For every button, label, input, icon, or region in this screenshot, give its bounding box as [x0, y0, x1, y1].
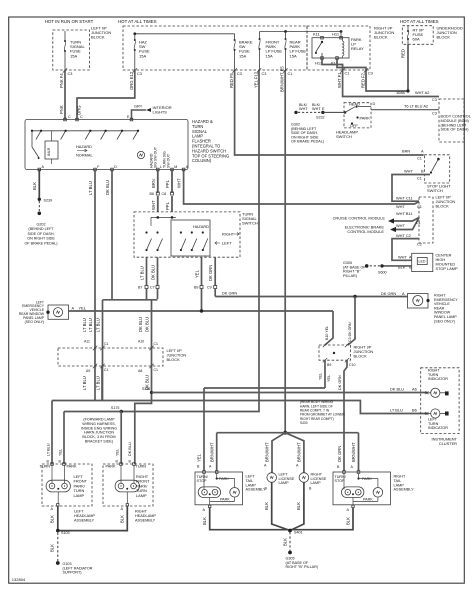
svg-text:DK GRN: DK GRN — [338, 375, 342, 390]
svg-text:YEL: YEL — [59, 449, 63, 456]
svg-text:BLK: BLK — [120, 515, 125, 523]
svg-text:C3: C3 — [368, 72, 373, 76]
svg-text:CRUISE CONTROL MODULE: CRUISE CONTROL MODULE — [333, 216, 386, 221]
svg-text:PARK: PARK — [220, 498, 230, 502]
svg-text:RIGHT: RIGHT — [394, 475, 406, 479]
svg-text:PARK: PARK — [67, 465, 78, 469]
svg-text:WHT: WHT — [299, 107, 308, 111]
svg-text:BRN: BRN — [402, 149, 410, 154]
svg-text:BLOCK: BLOCK — [437, 35, 451, 40]
svg-text:LT BLU: LT BLU — [82, 376, 87, 390]
svg-text:S600: S600 — [378, 271, 387, 275]
svg-text:NORMAL: NORMAL — [76, 153, 93, 158]
svg-text:S401: S401 — [294, 531, 303, 535]
svg-text:RED F2: RED F2 — [361, 72, 366, 88]
svg-text:C1: C1 — [154, 368, 159, 372]
svg-text:WHT: WHT — [404, 169, 413, 174]
svg-text:C: C — [80, 115, 83, 119]
svg-text:B7: B7 — [138, 285, 142, 289]
svg-text:A11: A11 — [84, 340, 90, 344]
svg-text:BLK: BLK — [32, 182, 37, 190]
svg-text:LAMP: LAMP — [394, 483, 405, 487]
svg-text:LAMP: LAMP — [74, 493, 85, 498]
svg-text:WHT: WHT — [398, 255, 407, 260]
svg-text:ASSEMBLY: ASSEMBLY — [394, 488, 415, 492]
svg-text:RELAY: RELAY — [351, 46, 364, 51]
svg-text:COLUMN): COLUMN) — [192, 158, 212, 163]
svg-text:D: D — [373, 102, 376, 106]
svg-text:D: D — [114, 165, 117, 169]
svg-text:HOT AT ALL TIMES: HOT AT ALL TIMES — [400, 19, 439, 24]
svg-text:BLOCK, 3 IN FROM: BLOCK, 3 IN FROM — [82, 435, 115, 439]
svg-text:ORG: ORG — [77, 105, 82, 115]
svg-text:A10: A10 — [138, 340, 144, 344]
svg-text:PARK: PARK — [363, 498, 373, 502]
svg-text:S239: S239 — [44, 198, 53, 202]
svg-text:WHT: WHT — [312, 107, 321, 111]
svg-text:ASSEMBLY: ASSEMBLY — [246, 488, 267, 492]
svg-text:BLOCK: BLOCK — [91, 35, 105, 40]
svg-text:LAMP: LAMP — [311, 481, 322, 485]
svg-text:SIDE OF DASH): SIDE OF DASH) — [441, 128, 470, 132]
svg-text:B10 YEL: B10 YEL — [325, 326, 329, 340]
svg-text:HAZARD: HAZARD — [76, 144, 92, 149]
svg-text:DK BLU: DK BLU — [390, 387, 404, 392]
svg-text:TAIL: TAIL — [394, 479, 402, 483]
svg-text:B: B — [421, 169, 424, 174]
svg-text:WHT: WHT — [396, 204, 405, 209]
svg-text:LEFT: LEFT — [246, 475, 256, 479]
svg-text:INDICATOR: INDICATOR — [428, 377, 448, 381]
svg-text:SIG SW OUT: SIG SW OUT — [154, 146, 158, 168]
svg-text:15A: 15A — [266, 53, 273, 58]
svg-text:PPL: PPL — [165, 201, 170, 210]
svg-text:S103: S103 — [61, 531, 70, 535]
svg-text:(SEO ONLY): (SEO ONLY) — [25, 320, 44, 324]
svg-text:60A: 60A — [413, 37, 420, 42]
svg-text:M: M — [174, 165, 177, 169]
svg-text:OF BRAKE PEDAL): OF BRAKE PEDAL) — [291, 140, 324, 144]
svg-text:B9: B9 — [194, 285, 198, 289]
svg-text:C3 DK GRN: C3 DK GRN — [348, 322, 352, 342]
svg-text:WHT: WHT — [151, 200, 156, 210]
svg-text:A8: A8 — [138, 369, 142, 373]
svg-text:C1: C1 — [154, 342, 159, 346]
svg-text:RED F5: RED F5 — [229, 72, 234, 88]
svg-text:BLOCK: BLOCK — [436, 204, 450, 209]
svg-text:BRACKET SIDE): BRACKET SIDE) — [85, 440, 113, 444]
svg-text:LED: LED — [419, 260, 426, 264]
svg-text:LIGHTS: LIGHTS — [153, 110, 168, 115]
svg-text:STOP: STOP — [335, 479, 346, 483]
svg-text:HEAD: HEAD — [349, 101, 360, 106]
svg-text:132804: 132804 — [12, 577, 26, 582]
svg-text:(BEHIND LEFT: (BEHIND LEFT — [28, 227, 54, 231]
svg-text:HOT IN RUN OR START: HOT IN RUN OR START — [45, 19, 94, 24]
svg-text:C10: C10 — [349, 363, 355, 367]
svg-text:YEL: YEL — [116, 449, 120, 456]
svg-text:A6: A6 — [412, 387, 417, 392]
svg-text:ON RIGHT SIDE: ON RIGHT SIDE — [27, 237, 55, 241]
svg-text:C2: C2 — [417, 243, 422, 247]
svg-text:PPL: PPL — [165, 179, 170, 188]
svg-text:B6: B6 — [412, 408, 417, 413]
svg-text:LT BLU: LT BLU — [88, 318, 93, 332]
svg-text:INDICATOR: INDICATOR — [428, 426, 448, 430]
svg-text:C1: C1 — [417, 205, 422, 209]
svg-text:LAMP: LAMP — [246, 483, 257, 487]
svg-text:S400: S400 — [300, 421, 308, 425]
svg-text:BRN/WHT: BRN/WHT — [265, 442, 270, 462]
svg-text:TURN: TURN — [40, 465, 51, 469]
svg-text:15A: 15A — [239, 53, 246, 58]
svg-text:DK BLU: DK BLU — [138, 317, 143, 332]
svg-text:(BEHIND LEFT: (BEHIND LEFT — [441, 123, 468, 127]
svg-text:PILLAR): PILLAR) — [343, 274, 357, 278]
svg-text:ASSEMBLY: ASSEMBLY — [135, 518, 156, 522]
svg-text:HEADLAMP: HEADLAMP — [74, 514, 95, 518]
svg-text:C1: C1 — [104, 368, 109, 372]
svg-text:C3: C3 — [68, 72, 73, 76]
svg-text:BLK: BLK — [264, 502, 269, 510]
svg-text:BRN: BRN — [151, 179, 156, 188]
svg-text:RIGHT: RIGHT — [222, 232, 235, 237]
svg-text:L: L — [160, 165, 162, 169]
svg-text:G202: G202 — [36, 223, 45, 227]
svg-text:BRN/WHT: BRN/WHT — [351, 442, 356, 462]
svg-text:(FORWARD LAMP: (FORWARD LAMP — [83, 418, 115, 422]
svg-text:INSIDE ENG WIRING: INSIDE ENG WIRING — [81, 426, 117, 430]
svg-text:RIGHT "B" PILLAR): RIGHT "B" PILLAR) — [286, 565, 318, 569]
svg-text:C7: C7 — [150, 285, 155, 289]
svg-text:PARK: PARK — [362, 477, 372, 481]
svg-text:BRN/WHT E5: BRN/WHT E5 — [280, 66, 285, 92]
svg-text:A: A — [421, 149, 424, 154]
svg-text:K11: K11 — [313, 32, 321, 37]
svg-text:C3: C3 — [237, 72, 242, 76]
svg-text:HOT AT ALL TIMES: HOT AT ALL TIMES — [118, 19, 157, 24]
svg-text:PARK: PARK — [360, 116, 371, 121]
svg-text:MODULE (BCM): MODULE (BCM) — [441, 119, 470, 123]
svg-text:BLK: BLK — [296, 502, 301, 510]
svg-text:PARK: PARK — [106, 465, 117, 469]
svg-text:S175: S175 — [111, 406, 120, 410]
svg-text:SW OUT: SW OUT — [167, 153, 171, 168]
svg-text:B9: B9 — [327, 363, 331, 367]
svg-text:15A: 15A — [290, 53, 297, 58]
svg-text:SUPPORT): SUPPORT) — [63, 571, 82, 575]
svg-text:HEADLAMP: HEADLAMP — [135, 514, 156, 518]
svg-text:YEL: YEL — [197, 453, 202, 462]
svg-text:LT BLU: LT BLU — [82, 318, 87, 332]
svg-text:LT BLU: LT BLU — [88, 181, 93, 195]
svg-text:WHT B11: WHT B11 — [396, 211, 413, 216]
svg-text:HAZARD: HAZARD — [193, 224, 209, 229]
svg-text:C1: C1 — [288, 72, 293, 76]
svg-text:C9: C9 — [207, 285, 212, 289]
svg-text:BRN/WHT: BRN/WHT — [297, 442, 302, 462]
svg-text:C3: C3 — [432, 98, 437, 102]
svg-text:SWITCH: SWITCH — [242, 221, 258, 226]
svg-text:DK GRN: DK GRN — [337, 446, 342, 462]
svg-text:LT BLU: LT BLU — [96, 318, 101, 332]
svg-text:OF BRAKE PEDAL): OF BRAKE PEDAL) — [25, 241, 58, 245]
svg-text:YEL: YEL — [327, 375, 331, 382]
svg-text:A9: A9 — [86, 369, 90, 373]
svg-text:WIRING HARNESS,: WIRING HARNESS, — [82, 422, 116, 426]
svg-text:OFF: OFF — [350, 123, 358, 128]
svg-text:WHT: WHT — [177, 178, 182, 188]
svg-text:H11: H11 — [332, 32, 340, 37]
svg-text:BLK: BLK — [283, 538, 288, 546]
svg-text:S232: S232 — [316, 116, 325, 120]
svg-text:BLK: BLK — [50, 544, 55, 552]
svg-text:DK BLU: DK BLU — [151, 265, 156, 280]
svg-text:RIGHT: RIGHT — [135, 510, 147, 514]
svg-text:BLOCK: BLOCK — [374, 35, 388, 40]
svg-text:STOP LAMP: STOP LAMP — [436, 266, 459, 271]
svg-text:LT BLU: LT BLU — [390, 408, 403, 413]
svg-text:DK GRN: DK GRN — [381, 291, 396, 296]
svg-text:A: A — [402, 291, 405, 296]
svg-text:SWITCH: SWITCH — [336, 134, 352, 139]
svg-text:DK BLU: DK BLU — [128, 442, 132, 456]
svg-text:T6 LT BLU A2: T6 LT BLU A2 — [404, 103, 428, 108]
svg-text:C3: C3 — [262, 72, 267, 76]
svg-text:BLK: BLK — [202, 517, 207, 525]
svg-text:C1: C1 — [417, 177, 422, 181]
svg-text:WHT C11: WHT C11 — [396, 196, 413, 201]
svg-text:WHT F1: WHT F1 — [337, 72, 342, 88]
svg-text:LEFT: LEFT — [74, 510, 84, 514]
svg-text:WHT C2: WHT C2 — [396, 233, 411, 238]
svg-text:LEFT: LEFT — [222, 241, 232, 246]
svg-text:YEL: YEL — [195, 269, 200, 278]
svg-text:SWITCH: SWITCH — [427, 188, 443, 193]
svg-text:BLOCK: BLOCK — [167, 357, 181, 362]
svg-text:INLR: INLR — [47, 147, 51, 156]
svg-text:LAMP: LAMP — [279, 481, 290, 485]
svg-text:SIDE OF DASH,: SIDE OF DASH, — [27, 232, 54, 236]
svg-text:ORG E12: ORG E12 — [129, 71, 134, 90]
svg-text:WHT: WHT — [396, 223, 405, 228]
svg-text:BRN/WHT: BRN/WHT — [210, 442, 215, 462]
svg-text:YEL F12: YEL F12 — [254, 71, 259, 88]
svg-text:BLK: BLK — [50, 515, 55, 523]
svg-text:BLOCK: BLOCK — [354, 354, 368, 359]
svg-text:DK GRN: DK GRN — [222, 291, 237, 296]
svg-text:(SEO ONLY): (SEO ONLY) — [434, 319, 455, 323]
svg-text:C1: C1 — [417, 157, 422, 161]
svg-text:RED: RED — [401, 49, 406, 58]
svg-text:C1: C1 — [345, 72, 350, 76]
svg-text:PNK F4: PNK F4 — [59, 73, 64, 88]
svg-text:DK BLU: DK BLU — [145, 375, 150, 390]
svg-text:PNK: PNK — [59, 105, 64, 114]
svg-text:CONTROL MODULE: CONTROL MODULE — [347, 229, 384, 234]
svg-text:C3: C3 — [432, 112, 437, 116]
svg-text:1088: 1088 — [396, 90, 405, 95]
svg-text:15A: 15A — [139, 53, 146, 58]
svg-text:LT BLU: LT BLU — [96, 376, 101, 390]
svg-text:TURN: TURN — [136, 465, 147, 469]
svg-text:LT BLU: LT BLU — [140, 266, 145, 280]
svg-text:DK GRN: DK GRN — [208, 265, 213, 281]
svg-text:C1: C1 — [416, 221, 421, 225]
svg-text:C: C — [68, 115, 71, 119]
svg-text:LAMP: LAMP — [136, 493, 147, 498]
svg-text:C1: C1 — [104, 342, 109, 346]
svg-text:C3: C3 — [137, 72, 142, 76]
svg-text:CLUSTER: CLUSTER — [439, 441, 457, 446]
svg-text:B8: B8 — [150, 192, 154, 196]
svg-text:BLK: BLK — [346, 517, 351, 525]
svg-text:15A: 15A — [70, 53, 77, 58]
svg-text:ASSEMBLY: ASSEMBLY — [74, 518, 95, 522]
svg-text:GRY: GRY — [134, 104, 143, 109]
svg-text:DK BLU: DK BLU — [105, 180, 110, 195]
svg-text:YEL: YEL — [79, 305, 87, 310]
svg-text:HARN JUNCTION: HARN JUNCTION — [84, 431, 114, 435]
svg-text:PARK: PARK — [219, 477, 229, 481]
svg-text:LT BLU: LT BLU — [47, 443, 51, 456]
svg-text:BODY CONTROL: BODY CONTROL — [441, 115, 471, 119]
svg-text:C8: C8 — [162, 192, 167, 196]
svg-text:WHT A2: WHT A2 — [415, 90, 429, 95]
svg-text:TAIL: TAIL — [246, 479, 254, 483]
svg-text:YEL: YEL — [319, 373, 323, 380]
svg-text:DK BLU: DK BLU — [145, 317, 150, 332]
svg-text:STOP: STOP — [197, 479, 208, 483]
